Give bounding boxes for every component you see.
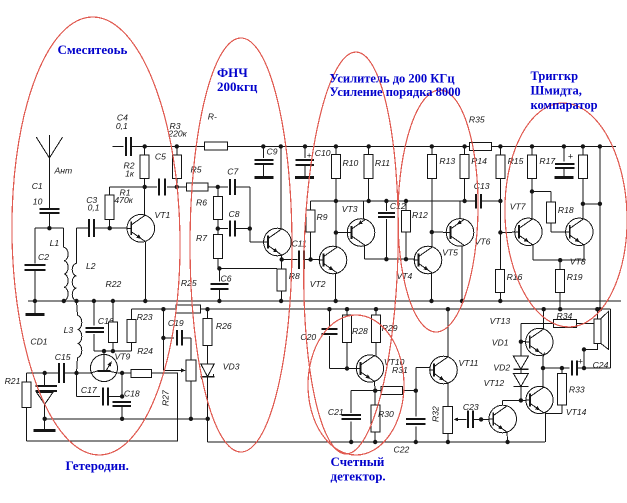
svg-text:C23: C23 bbox=[463, 402, 479, 412]
inductor L2 bbox=[72, 228, 96, 300]
wire main lower rail bbox=[28, 300, 621, 302]
label LPF bbox=[217, 65, 258, 94]
resistor R15 bbox=[496, 144, 524, 235]
capacitor C13 bbox=[474, 181, 490, 208]
ground bottom left bbox=[34, 417, 56, 432]
svg-text:VT1: VT1 bbox=[155, 210, 171, 220]
resistor R16 bbox=[496, 233, 523, 304]
resistor R18 bbox=[532, 192, 574, 232]
resistor R14 bbox=[460, 144, 487, 201]
wire second lower rail bbox=[132, 308, 611, 310]
capacitor C23 bbox=[454, 402, 489, 428]
svg-text:R18: R18 bbox=[558, 205, 574, 215]
svg-text:C21: C21 bbox=[328, 407, 344, 417]
capacitor C16 bbox=[86, 299, 132, 351]
resistor R35 bbox=[469, 114, 491, 150]
resistor R31 body bbox=[381, 387, 403, 395]
resistor R28 bbox=[343, 307, 368, 369]
wire output node bbox=[583, 144, 602, 311]
wire R5 to C7 bbox=[208, 185, 228, 189]
svg-text:R16: R16 bbox=[507, 272, 523, 282]
resistor R30 bbox=[371, 391, 394, 444]
wire VT5 top bbox=[459, 201, 461, 219]
wire VT1 emitter bbox=[106, 242, 148, 303]
annotation ellipse trigger bbox=[501, 101, 627, 329]
svg-text:L2: L2 bbox=[86, 261, 96, 271]
svg-text:C19: C19 bbox=[168, 318, 184, 328]
capacitor C8 bbox=[216, 209, 252, 237]
svg-text:C18: C18 bbox=[124, 389, 140, 399]
resistor R2 bbox=[124, 144, 150, 187]
svg-text:R21: R21 bbox=[5, 376, 21, 386]
label heterodyne bbox=[66, 458, 129, 473]
node VT1 base junction bbox=[108, 226, 112, 230]
transistor VT11 bbox=[430, 356, 479, 384]
resistor R26 bbox=[203, 309, 232, 364]
wire VT4 collector bbox=[431, 232, 433, 247]
svg-text:L3: L3 bbox=[64, 325, 74, 335]
label amplifier bbox=[330, 71, 461, 99]
wire VT7 collector bbox=[531, 192, 533, 219]
svg-text:CD1: CD1 bbox=[30, 337, 47, 347]
svg-text:R25: R25 bbox=[181, 278, 197, 288]
transistor VT7 bbox=[510, 201, 542, 245]
capacitor C3 bbox=[77, 195, 127, 237]
svg-text:VT5: VT5 bbox=[442, 248, 458, 258]
svg-text:R5: R5 bbox=[191, 164, 202, 174]
wire detector out bbox=[351, 389, 418, 393]
svg-text:R23: R23 bbox=[137, 312, 153, 322]
svg-text:R26: R26 bbox=[216, 321, 232, 331]
capacitor C4 bbox=[112, 113, 132, 156]
svg-text:200кгц: 200кгц bbox=[217, 79, 258, 94]
wire heterodyne bottom bbox=[45, 417, 210, 421]
svg-text:Гетеродин.: Гетеродин. bbox=[66, 458, 129, 473]
svg-text:VD2: VD2 bbox=[493, 363, 510, 373]
svg-text:470к: 470к bbox=[114, 195, 133, 205]
capacitor C14 electrolytic bbox=[555, 144, 575, 179]
svg-text:VT7: VT7 bbox=[510, 201, 527, 211]
svg-text:R14: R14 bbox=[471, 156, 487, 166]
wire oscillator base line bbox=[26, 337, 91, 376]
svg-text:R12: R12 bbox=[412, 210, 428, 220]
svg-text:C15: C15 bbox=[55, 352, 71, 362]
resistor R3 bbox=[167, 121, 187, 187]
speaker bbox=[582, 307, 609, 368]
svg-text:C24: C24 bbox=[593, 360, 609, 370]
resistor R33 bbox=[545, 368, 585, 413]
svg-text:R24: R24 bbox=[137, 346, 153, 356]
node antenna junction bbox=[47, 226, 51, 230]
svg-text:компаратор: компаратор bbox=[531, 98, 598, 112]
wire VT14 emitter bbox=[544, 413, 546, 442]
transistor VT1 bbox=[127, 210, 170, 242]
wire VT14 collector bbox=[542, 368, 544, 387]
svg-text:C7: C7 bbox=[227, 167, 239, 177]
svg-text:R8: R8 bbox=[289, 271, 300, 281]
svg-text:R13: R13 bbox=[439, 156, 455, 166]
capacitor C12 bbox=[378, 201, 406, 259]
transistor VT14 bbox=[526, 386, 587, 417]
svg-text:C5: C5 bbox=[155, 152, 166, 162]
svg-text:R9: R9 bbox=[317, 212, 328, 222]
svg-text:Счетный: Счетный bbox=[331, 454, 385, 469]
capacitor C10 bbox=[295, 144, 331, 179]
potentiometer R27 bbox=[161, 338, 196, 419]
svg-text:+: + bbox=[307, 151, 312, 160]
svg-text:R33: R33 bbox=[569, 385, 585, 395]
antenna Ант bbox=[36, 135, 72, 209]
ground C2 bar bbox=[25, 299, 44, 316]
diode VD1 bbox=[492, 338, 529, 370]
svg-text:R31: R31 bbox=[392, 365, 408, 375]
svg-text:R6: R6 bbox=[196, 198, 207, 208]
label detector bbox=[331, 454, 386, 484]
potentiometer R32 bbox=[431, 384, 453, 445]
svg-text:C1: C1 bbox=[32, 181, 43, 191]
wire antenna to tank bbox=[35, 228, 64, 263]
svg-text:1к: 1к bbox=[125, 168, 135, 178]
svg-text:C22: C22 bbox=[394, 444, 410, 454]
label trigger bbox=[531, 69, 598, 112]
wire audio line bbox=[543, 309, 611, 370]
wire bottom ground rail bbox=[208, 441, 546, 443]
wire VT2a collector bbox=[279, 144, 283, 228]
wire VT11 base bbox=[416, 368, 430, 391]
node L1 rail bbox=[62, 299, 66, 303]
svg-text:R22: R22 bbox=[106, 279, 122, 289]
resistor R20 bbox=[578, 144, 587, 206]
svg-text:VT11: VT11 bbox=[459, 358, 479, 368]
node rail2 left bbox=[161, 307, 165, 311]
svg-text:R35: R35 bbox=[469, 114, 485, 124]
resistor R23 bbox=[127, 309, 153, 351]
svg-text:R7: R7 bbox=[196, 233, 208, 243]
capacitor C6 bbox=[211, 266, 232, 303]
wire VT5 bottom bbox=[460, 246, 464, 303]
svg-text:VT8: VT8 bbox=[570, 256, 586, 266]
transistor VT5 bbox=[442, 219, 490, 258]
node VT9 emitter bbox=[117, 371, 131, 375]
capacitor C2 bbox=[25, 252, 50, 301]
wire R7 to R8 bbox=[219, 268, 277, 270]
svg-text:R-: R- bbox=[208, 112, 217, 122]
svg-text:VD1: VD1 bbox=[492, 338, 509, 348]
transistor VT10 bbox=[356, 355, 408, 382]
svg-text:+: + bbox=[578, 357, 583, 367]
resistor R8 bbox=[277, 260, 300, 304]
svg-text:ФНЧ: ФНЧ bbox=[217, 65, 248, 80]
svg-text:R30: R30 bbox=[378, 409, 394, 419]
wire VT8 collector bbox=[582, 204, 584, 219]
svg-text:VT12: VT12 bbox=[484, 378, 505, 388]
inductor L3 bbox=[64, 299, 82, 373]
capacitor C20 bbox=[300, 307, 356, 371]
svg-text:Усиление порядка 8000: Усиление порядка 8000 bbox=[330, 85, 461, 99]
transistor VT4 bbox=[397, 246, 442, 281]
resistor R25 bbox=[176, 278, 210, 313]
resistor R10 bbox=[331, 144, 358, 201]
resistor R24 body bbox=[131, 369, 152, 377]
capacitor C24 bbox=[571, 357, 609, 376]
annotation ellipse amp2 bbox=[396, 89, 480, 332]
wire filter line bbox=[110, 185, 187, 189]
svg-text:C17: C17 bbox=[81, 385, 98, 395]
svg-text:VT3: VT3 bbox=[342, 204, 358, 214]
resistor R21 bbox=[5, 373, 31, 441]
resistor RA bbox=[108, 299, 117, 354]
svg-text:0,1: 0,1 bbox=[88, 202, 100, 212]
svg-text:C2: C2 bbox=[38, 252, 49, 262]
svg-text:C20: C20 bbox=[300, 332, 316, 342]
wire VT1 collector bbox=[144, 187, 146, 215]
resistor R5 bbox=[186, 164, 208, 191]
wire VT7 emitter bbox=[533, 245, 560, 261]
wire VT14 base bbox=[521, 399, 526, 401]
capacitor C1 bbox=[32, 181, 60, 228]
capacitor C18 bbox=[113, 373, 140, 419]
capacitor C5 bbox=[155, 152, 166, 196]
resistor R1 bbox=[105, 187, 134, 228]
wire VT2b collector bbox=[334, 201, 338, 246]
capacitor C19 bbox=[161, 309, 191, 360]
svg-text:детектор.: детектор. bbox=[331, 469, 386, 484]
svg-text:VT13: VT13 bbox=[490, 316, 511, 326]
resistor R17 bbox=[528, 144, 557, 194]
svg-text:C6: C6 bbox=[221, 273, 232, 283]
resistor R9 bbox=[306, 201, 328, 262]
transistor VT3 bbox=[342, 204, 375, 246]
svg-text:R19: R19 bbox=[567, 272, 583, 282]
svg-text:Шмидта,: Шмидта, bbox=[531, 84, 582, 98]
wire VT5 base bbox=[432, 231, 447, 233]
svg-text:0,1: 0,1 bbox=[116, 121, 128, 131]
annotation ellipse LPF bbox=[190, 38, 292, 452]
svg-text:L1: L1 bbox=[50, 238, 60, 248]
resistor R- series bbox=[205, 112, 228, 151]
wire top supply rail bbox=[131, 145, 616, 147]
node VT13 base bbox=[519, 340, 526, 344]
node VT2a emitter bbox=[280, 255, 284, 261]
capacitor C21 bbox=[328, 391, 361, 444]
annotation ellipse mixer-heterodyne bbox=[8, 16, 184, 457]
capacitor C7 bbox=[227, 167, 250, 195]
svg-text:Смеситеоьь: Смеситеоьь bbox=[58, 42, 128, 57]
svg-text:R10: R10 bbox=[343, 158, 359, 168]
svg-text:R28: R28 bbox=[352, 326, 368, 336]
transistor VT2 first stage bbox=[264, 228, 292, 256]
wire VT3 base bbox=[336, 232, 347, 234]
transistor VT8 bbox=[566, 218, 593, 266]
wire C7 C8 junction bbox=[250, 187, 264, 242]
wire VT10 emitter bbox=[373, 381, 377, 393]
inductor L1 bbox=[50, 238, 69, 301]
wire VT11 collector bbox=[446, 307, 450, 357]
wire VT13 emitter bbox=[541, 353, 545, 371]
transistor VT13 bbox=[490, 316, 553, 356]
resistor R13 bbox=[427, 144, 455, 234]
resistor R29 bbox=[372, 307, 398, 356]
capacitor C15 bbox=[55, 352, 71, 383]
resistor R6 bbox=[196, 187, 222, 229]
svg-text:10: 10 bbox=[33, 196, 43, 206]
svg-text:C8: C8 bbox=[229, 209, 240, 219]
capacitor C17 bbox=[77, 373, 125, 405]
transistor VT9 bbox=[91, 346, 154, 382]
wire heterodyne loop bbox=[26, 373, 177, 441]
resistor R34 bbox=[521, 311, 594, 342]
wire VT7 base bbox=[500, 231, 514, 233]
svg-text:R34: R34 bbox=[557, 311, 573, 321]
svg-text:C9: C9 bbox=[267, 146, 278, 156]
capacitor C9 bbox=[255, 144, 278, 179]
resistor R11 bbox=[364, 144, 390, 203]
svg-text:VD3: VD3 bbox=[223, 361, 240, 371]
transistor VT12 bbox=[484, 378, 517, 433]
wire VT3 emitter bbox=[365, 246, 415, 261]
svg-text:Усилитель до 200 КГц: Усилитель до 200 КГц bbox=[330, 71, 455, 85]
svg-text:Триггкр: Триггкр bbox=[531, 69, 579, 83]
svg-text:+: + bbox=[568, 151, 573, 161]
wire VT2 emitter bbox=[334, 274, 338, 303]
capacitor C11 bbox=[282, 238, 320, 268]
svg-text:C10: C10 bbox=[315, 148, 331, 158]
svg-text:VT2: VT2 bbox=[310, 279, 326, 289]
svg-text:VT9: VT9 bbox=[115, 351, 131, 361]
wire VT3 collector bbox=[363, 201, 365, 219]
svg-text:R27: R27 bbox=[161, 389, 171, 406]
svg-text:220к: 220к bbox=[167, 129, 187, 139]
label mixer bbox=[58, 42, 128, 57]
wire VT13 collector bbox=[542, 307, 546, 329]
wire VT4 emitter bbox=[429, 273, 433, 303]
svg-text:VT14: VT14 bbox=[566, 407, 587, 417]
annotation ellipse detector bbox=[308, 315, 404, 455]
capacitor C22 bbox=[394, 391, 426, 455]
svg-text:R11: R11 bbox=[375, 158, 390, 168]
wire VT9 collector bbox=[102, 349, 106, 355]
varicap CD1 bbox=[36, 373, 58, 419]
svg-text:R17: R17 bbox=[539, 156, 556, 166]
wire VT8 emitter bbox=[558, 245, 584, 263]
annotation ellipse amp1 bbox=[299, 51, 403, 455]
diode VD2 bbox=[493, 363, 528, 401]
resistor R7 bbox=[196, 229, 222, 269]
resistor R12 bbox=[402, 201, 428, 259]
svg-text:R32: R32 bbox=[431, 406, 441, 422]
transistor VT2 bbox=[310, 246, 347, 289]
wire amplifier mid line bbox=[311, 199, 501, 203]
resistor R19 bbox=[556, 260, 583, 311]
wire VT12 emitter bbox=[505, 432, 509, 444]
svg-text:C13: C13 bbox=[474, 181, 490, 191]
svg-text:Ант: Ант bbox=[54, 166, 73, 176]
wire VT12 collector bbox=[503, 398, 523, 405]
zener diode VD3 bbox=[201, 361, 240, 442]
